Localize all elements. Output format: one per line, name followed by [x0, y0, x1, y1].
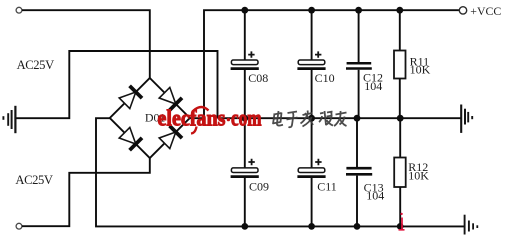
label D01: [145, 111, 166, 125]
svg-text:C09: C09: [249, 179, 269, 193]
svg-text:10K: 10K: [410, 63, 431, 77]
发: [301, 111, 314, 127]
svg-text:AC25V: AC25V: [15, 173, 52, 187]
terminal AC input 1 (top-left): [16, 7, 22, 13]
svg-text:AC25V: AC25V: [17, 58, 54, 72]
wire bridge left corner to negative bottom rail: [96, 118, 464, 226]
diode D01 top-left (anode left corner, cathode top corner): [119, 86, 142, 109]
terminal +VCC: [459, 4, 501, 18]
svg-text:104: 104: [366, 189, 384, 203]
wire AC1: terminal to bridge top corner: [22, 10, 150, 78]
capacitor C13 ceramic 104: [346, 118, 384, 226]
watermark elecfans-com (red logo text): [158, 105, 262, 133]
wire AC2: terminal to bridge bottom corner: [22, 158, 150, 226]
junction dots middle rail: [241, 115, 403, 122]
bridge rectifier D01 diamond: [110, 78, 190, 158]
label AC25V (lower): [15, 173, 52, 187]
wire bridge right corner to positive top rail: [190, 10, 460, 118]
ground (right of middle rail): [461, 105, 472, 133]
svg-text:C08: C08: [248, 71, 268, 85]
ground (left): [3, 106, 15, 133]
电: [273, 111, 284, 126]
svg-text:com: com: [231, 105, 262, 131]
svg-text:C10: C10: [315, 71, 335, 85]
label AC25V (upper): [17, 58, 54, 72]
子: [287, 112, 298, 128]
wire middle ground rail: [218, 117, 462, 119]
diode D01 top-right (anode top corner, cathode right corner): [159, 87, 182, 110]
resistor R12 10K: [394, 118, 429, 226]
diode D01 bottom-right (anode bottom corner, cathode right corner): [159, 126, 182, 149]
svg-text:+VCC: +VCC: [470, 4, 501, 18]
watermark red arrow at R12 bottom: [399, 213, 405, 230]
resistor R11 10K: [394, 10, 431, 118]
wire ground jumper over bridge to mid rail: [16, 51, 217, 118]
capacitor C08 electrolytic: [231, 10, 269, 118]
capacitor C10 electrolytic: [297, 10, 334, 118]
svg-text:elecfans: elecfans: [158, 105, 226, 131]
烧: [319, 111, 333, 126]
svg-text:10K: 10K: [408, 169, 429, 183]
junction dots top rail: [241, 7, 403, 14]
capacitor C12 ceramic 104: [346, 10, 383, 118]
capacitor C11 electrolytic: [297, 118, 336, 226]
junction dots bottom rail: [241, 223, 403, 230]
友: [334, 111, 347, 126]
ground (bottom-right end of negative rail): [465, 215, 478, 235]
capacitor C09 electrolytic: [231, 118, 269, 226]
watermark chinese characters 电子发烧友 (gray): [273, 111, 347, 128]
terminal AC input 2 (bottom-left): [16, 223, 22, 229]
diode D01 bottom-left (anode left corner, cathode bottom corner): [119, 127, 142, 150]
svg-text:104: 104: [364, 79, 382, 93]
svg-text:C11: C11: [317, 179, 337, 193]
